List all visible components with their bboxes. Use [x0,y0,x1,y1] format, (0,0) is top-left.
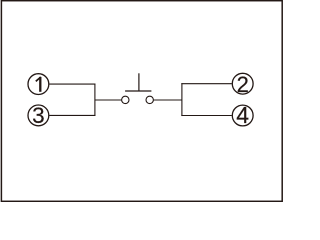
terminal 3 circle [28,105,49,126]
wire right bus to terminal 2 [181,83,231,85]
border frame [1,1,282,202]
wire terminal 1 to left bus [49,83,95,85]
terminal 2 circle [232,73,253,94]
right fixed contact [146,96,153,103]
terminal 1 circle [28,74,49,95]
pushbutton actuator stem [138,73,140,91]
left fixed contact [122,96,129,103]
movable contact bar [125,90,151,92]
terminal 1 label "1" [36,77,41,92]
wire right contact to right bus [154,99,182,101]
terminal 4 circle [232,105,253,126]
right vertical bus wire [181,83,183,116]
left vertical bus wire [94,84,96,116]
svg-text:2: 2 [237,72,249,97]
svg-text:3: 3 [32,103,45,128]
svg-text:4: 4 [236,102,249,128]
wire right bus to terminal 4 [181,115,231,117]
wire left bus to left contact [95,99,122,101]
wire terminal 3 to left bus [49,114,95,116]
